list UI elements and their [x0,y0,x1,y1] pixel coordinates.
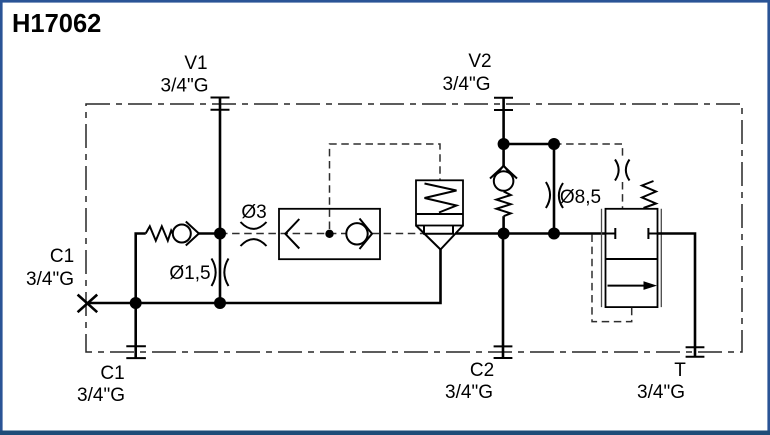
svg-text:3/4"G: 3/4"G [77,385,125,406]
U1 left seat chevron [285,219,299,249]
svg-text:Ø8,5: Ø8,5 [560,187,601,208]
check valve CV2 ball [494,171,514,191]
port C1 bottom ticks [126,346,146,358]
port C2 ticks [494,346,513,358]
wire: bottom main line from plug to riser [87,250,441,304]
port V1 ticks [211,98,230,110]
directional valve DV1 body [606,209,658,307]
svg-text:3/4"G: 3/4"G [443,74,491,95]
check valve CV1 seat [186,222,199,246]
DV1 flow arrow [608,285,645,287]
relief valve RV1 spring [425,184,457,213]
wire: DV1 outlet to T riser [658,234,696,358]
wire: main line right of relief valve [456,232,606,235]
svg-text:H17062: H17062 [12,10,101,38]
check valve CV2 poppet triangle [498,166,510,173]
svg-text:Ø1,5: Ø1,5 [169,263,210,284]
orifice Ø3 arcs [241,222,267,246]
svg-text:C1: C1 [50,246,74,267]
junction node dot [130,297,142,309]
DV1 spring [642,181,656,208]
junction node dot [214,228,226,240]
svg-text:V1: V1 [184,53,207,74]
junction node dot [548,138,560,150]
U1 check seat [360,219,373,250]
check valve CV2 seat arms [490,166,517,179]
port V2 ticks [494,98,513,110]
check valve CV1 branch left riser [136,234,146,304]
wire: CV1 outlet to node [199,232,220,235]
pilot line from node at V1 to middle valve and relief valve [220,233,424,235]
svg-text:C1: C1 [100,363,124,384]
relief valve RV1 body [416,180,463,225]
check valve CV2 spring [496,192,510,217]
U1 check ball [346,223,367,244]
relief valve RV1 funnel [416,226,463,250]
U1 pilot node dot [325,230,333,238]
directional valve DV1 side rails [602,209,662,307]
pilot orifice arcs above valve [615,160,630,181]
orifice Ø8,5 arcs [546,182,563,208]
wire: V2 branch horizontal at node [504,143,554,146]
svg-text:Ø3: Ø3 [241,202,266,223]
plug X on C1 side port [78,295,98,313]
manifold boundary (dash-dot envelope) [86,104,742,352]
svg-text:3/4"G: 3/4"G [637,382,685,403]
orifice Ø1,5 arcs [212,259,229,287]
relief valve RV1 seat ticks [424,226,453,234]
blue page frame [0,0,770,3]
svg-text:V2: V2 [468,51,491,72]
junction node dot [498,138,510,150]
DV1 closed port stubs [606,228,658,239]
check valve CV1 ball [173,225,191,243]
DV1 pilot tap dashed loop [592,235,632,322]
wire: C2 port line [502,234,505,359]
wire: CV2 to node [502,216,505,233]
pilot line into valve top [622,182,624,209]
svg-text:3/4"G: 3/4"G [445,382,493,403]
junction node dot [214,297,226,309]
svg-text:C2: C2 [470,360,494,381]
wire: V1 vertical line [219,98,222,304]
pilot-operated check valve U1 body [279,209,380,259]
pilot line up from U1 dot to relief valve top [330,144,441,229]
svg-text:3/4"G: 3/4"G [26,269,74,290]
junction node dot [498,228,510,240]
pilot line from node to valve top orifice [554,144,623,159]
relief valve RV1 band line [416,213,463,215]
junction node dot [548,228,560,240]
svg-text:3/4"G: 3/4"G [161,76,209,97]
wire: V2 vertical upper [502,98,505,167]
check valve CV1 spring [146,226,173,240]
port T ticks [686,347,705,357]
svg-text:T: T [674,360,686,381]
DV1 arrowhead [644,281,658,290]
wire: C1 bottom port line [134,303,137,359]
wire: orifice leg vertical [553,144,556,234]
directional valve DV1 divider [606,258,658,260]
